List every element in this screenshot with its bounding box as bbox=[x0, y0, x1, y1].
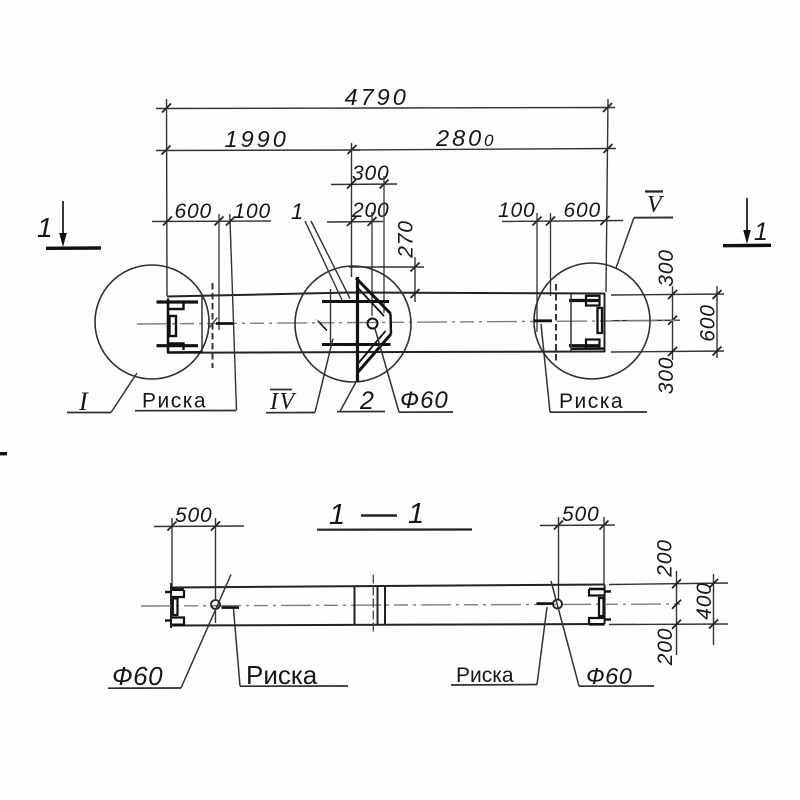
middle plate tip bbox=[389, 314, 392, 335]
dimension 600 and 100 left bbox=[152, 217, 271, 226]
label IV bbox=[266, 339, 333, 416]
dimension 200 top middle bbox=[327, 217, 383, 226]
label Riska bottom right bbox=[451, 607, 547, 687]
middle plate lower diagonal bbox=[358, 334, 391, 372]
left riska bar bbox=[216, 322, 233, 325]
middle anchor plate bbox=[356, 277, 359, 382]
label F60 bottom left bbox=[108, 575, 231, 692]
label Riska bottom left bbox=[234, 609, 349, 690]
right top notch box bbox=[586, 296, 600, 306]
left top step bbox=[169, 303, 184, 310]
label 1 middle bbox=[291, 199, 350, 300]
label F60 bottom right bbox=[551, 581, 654, 689]
svg-text:1990: 1990 bbox=[225, 126, 289, 152]
svg-text:100: 100 bbox=[498, 199, 535, 222]
right top flange bbox=[569, 299, 600, 302]
svg-text:1: 1 bbox=[291, 199, 304, 224]
extension line right end bbox=[606, 99, 608, 292]
svg-text:500: 500 bbox=[562, 503, 599, 526]
edge artifact bbox=[0, 452, 7, 455]
svg-text:300: 300 bbox=[655, 249, 678, 286]
right hidden dashed line bbox=[555, 284, 557, 362]
svg-text:500: 500 bbox=[175, 504, 212, 527]
svg-text:200: 200 bbox=[654, 628, 677, 666]
dimension 100 and 600 right bbox=[502, 216, 623, 226]
beam bottom edge bbox=[167, 352, 605, 353]
label F60 middle bbox=[375, 327, 454, 414]
right end edge bbox=[604, 294, 606, 353]
detail circle IV bbox=[295, 266, 411, 382]
label I bbox=[67, 373, 137, 416]
dimension 500 left bottom bbox=[154, 518, 244, 599]
left plate inner edge bbox=[201, 295, 203, 353]
section body left end bbox=[170, 583, 172, 628]
left groove bbox=[170, 316, 177, 336]
section right riska bar bbox=[537, 602, 554, 605]
extension line hole center bbox=[371, 212, 373, 316]
svg-text:Риска: Риска bbox=[456, 664, 514, 687]
left bottom step bbox=[169, 344, 184, 351]
dimension 300 top middle bbox=[331, 180, 397, 189]
section left riska bar bbox=[222, 606, 240, 609]
extension line riska left bbox=[218, 214, 220, 330]
svg-text:Ф60: Ф60 bbox=[586, 663, 632, 689]
svg-text:1: 1 bbox=[408, 498, 425, 530]
right bottom notch box bbox=[586, 340, 600, 349]
svg-text:400: 400 bbox=[693, 582, 716, 619]
left bottom thick bbox=[169, 351, 202, 354]
dimension 1990 bbox=[156, 145, 360, 155]
middle slot top bbox=[322, 300, 389, 303]
section marker 1 right bbox=[723, 198, 771, 246]
beam top edge bbox=[167, 293, 605, 297]
extension line 100 right bbox=[550, 213, 552, 296]
svg-text:Риска: Риска bbox=[559, 390, 624, 413]
section centerline bbox=[141, 604, 680, 606]
svg-text:Ф60: Ф60 bbox=[112, 661, 163, 691]
section marker 1 left bbox=[37, 201, 101, 248]
label Riska right top bbox=[541, 324, 647, 413]
left bottom flange bbox=[157, 344, 199, 347]
middle thin edge line bbox=[330, 289, 332, 345]
middle plate upper inner diagonal bbox=[357, 287, 384, 316]
extension line left end bbox=[166, 99, 169, 296]
detail circle V bbox=[534, 263, 650, 379]
section right channel bbox=[589, 589, 611, 624]
svg-text:0: 0 bbox=[484, 131, 494, 150]
right bottom thick bbox=[571, 347, 605, 350]
right groove bbox=[598, 308, 603, 333]
section body right end bbox=[604, 585, 606, 625]
svg-text:270: 270 bbox=[395, 220, 418, 258]
svg-text:600: 600 bbox=[175, 200, 212, 223]
detail circle I bbox=[95, 265, 209, 379]
extension line plate tip bbox=[383, 176, 385, 313]
svg-text:4790: 4790 bbox=[345, 84, 409, 110]
left end plate thick edge bbox=[167, 299, 170, 353]
right plate inner edge bbox=[570, 294, 572, 352]
section body top edge bbox=[171, 585, 605, 588]
middle plate lower inner diagonal bbox=[359, 331, 386, 363]
left centerline tick bbox=[209, 318, 218, 329]
svg-text:IV: IV bbox=[269, 389, 296, 415]
section title 1 - 1 bbox=[317, 498, 472, 531]
section right hole bbox=[553, 600, 562, 609]
label 2 bbox=[337, 381, 385, 415]
middle hole bbox=[368, 319, 378, 329]
svg-text:280: 280 bbox=[435, 125, 484, 151]
dimension 2800 bbox=[351, 144, 616, 153]
svg-text:100: 100 bbox=[234, 200, 271, 223]
dimension 4790 bbox=[156, 103, 615, 113]
svg-text:V: V bbox=[647, 192, 664, 218]
label Riska left top bbox=[135, 214, 237, 413]
beam centerline bbox=[137, 321, 676, 325]
left top flange bbox=[157, 300, 199, 303]
right side vertical dims 200 400 200 bbox=[609, 571, 728, 655]
section left channel bbox=[165, 590, 185, 625]
svg-text:1: 1 bbox=[37, 212, 53, 243]
label V bbox=[616, 192, 673, 269]
svg-text:Риска: Риска bbox=[142, 390, 207, 413]
svg-text:600: 600 bbox=[697, 304, 720, 341]
left hidden dashed line bbox=[212, 283, 214, 368]
dimension 270 bbox=[349, 257, 424, 302]
dimension 500 right bottom bbox=[540, 517, 615, 599]
middle plate upper diagonal bbox=[356, 278, 391, 314]
svg-text:300: 300 bbox=[655, 357, 678, 394]
middle slot bottom bbox=[322, 343, 391, 346]
right side vertical dims 300 600 300 bbox=[611, 286, 724, 360]
extension line riska right bbox=[536, 213, 538, 332]
svg-text:600: 600 bbox=[564, 199, 601, 222]
svg-text:1: 1 bbox=[329, 499, 346, 531]
extension line middle bbox=[351, 143, 353, 277]
right bottom flange bbox=[569, 344, 600, 347]
centerline arrow bbox=[315, 318, 327, 331]
svg-text:Ф60: Ф60 bbox=[400, 387, 449, 414]
svg-text:200: 200 bbox=[654, 539, 677, 577]
section middle joint bbox=[354, 587, 356, 625]
section left hole bbox=[211, 600, 220, 609]
svg-text:1: 1 bbox=[754, 218, 769, 246]
right riska bar bbox=[534, 319, 552, 322]
section body bottom edge bbox=[171, 624, 605, 626]
